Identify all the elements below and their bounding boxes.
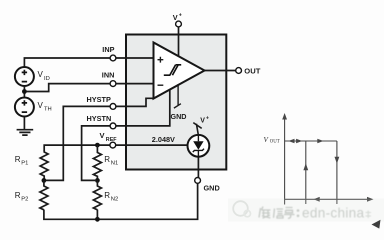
node junction RP1/RP2 — [42, 178, 47, 183]
ground symbol — [17, 130, 34, 135]
hysteresis loop bottom arrow — [314, 197, 320, 202]
label V+ top — [173, 13, 182, 22]
svg-text:R: R — [15, 191, 21, 200]
label RP2 — [15, 191, 29, 203]
svg-text:+: + — [179, 13, 182, 19]
terminal GND bottom — [195, 178, 201, 184]
label OUT — [244, 66, 260, 75]
hysteresis loop top edge — [285, 139, 337, 144]
comparator + input glyph — [158, 57, 164, 63]
svg-text:HYSTP: HYSTP — [87, 95, 111, 104]
terminal INN — [110, 81, 116, 87]
label RN2 — [104, 191, 118, 203]
watermark tint — [228, 199, 384, 222]
label RN1 — [104, 155, 118, 167]
wire HYSTP net — [45, 98, 154, 180]
resistor RP2 — [40, 180, 48, 209]
IC box U1 — [126, 35, 226, 170]
label VOUT graph — [264, 136, 280, 145]
wire VREF net — [44, 145, 188, 151]
resistor RN1 — [93, 145, 101, 180]
svg-text:V: V — [200, 118, 205, 125]
svg-text:ID: ID — [44, 76, 50, 82]
svg-text:V: V — [38, 70, 44, 79]
terminal HYSTN — [110, 123, 116, 129]
comparator GND pin wire — [174, 84, 181, 108]
watermark chinese glyph wei — [259, 207, 271, 219]
watermark chinese glyph xin — [274, 209, 284, 219]
wire between sources — [23, 86, 25, 97]
label VREF — [100, 131, 118, 143]
wire OUT — [205, 70, 236, 72]
label 2.048V — [152, 135, 175, 144]
voltage source VTH — [15, 98, 34, 117]
hysteresis loop right edge (falling) — [335, 141, 340, 204]
hysteresis graph axes — [282, 113, 373, 205]
node junction RN2/ground bus — [95, 217, 100, 222]
svg-text:edn-china: edn-china — [302, 206, 365, 221]
terminal V+ top — [176, 21, 182, 27]
svg-text:GND: GND — [204, 183, 220, 192]
svg-text:REF: REF — [106, 137, 117, 143]
terminal OUT — [236, 68, 242, 74]
watermark logo circle — [233, 201, 250, 217]
svg-text:OUT: OUT — [270, 140, 280, 145]
label V+ at reference — [200, 115, 209, 124]
svg-text:+: + — [206, 115, 209, 121]
svg-text:OUT: OUT — [244, 66, 260, 75]
label HYSTN — [87, 114, 112, 123]
voltage source VID — [15, 67, 34, 86]
svg-text:TH: TH — [44, 107, 52, 113]
svg-text:V: V — [100, 131, 105, 140]
terminal HYSTP — [110, 104, 116, 110]
label GND bottom — [204, 183, 220, 192]
wire reference to GND terminal and ground bus — [44, 157, 199, 220]
terminal INP — [110, 55, 116, 61]
watermark trailing mark — [366, 211, 372, 219]
node junction VREF/RN1 — [95, 143, 100, 148]
wire VTH to ground — [23, 117, 25, 130]
svg-text:N2: N2 — [111, 196, 118, 202]
svg-text:2.048V: 2.048V — [152, 135, 175, 144]
svg-text:HYSTN: HYSTN — [87, 114, 112, 123]
svg-text:P2: P2 — [21, 196, 28, 202]
hysteresis loop left edge (rising) — [303, 141, 308, 204]
resistor RP1 — [40, 151, 48, 181]
svg-text:R: R — [104, 155, 110, 164]
arrow to V+ at reference — [193, 123, 201, 135]
svg-text:N1: N1 — [111, 160, 118, 166]
svg-text:P1: P1 — [21, 160, 28, 166]
terminal VREF — [110, 142, 116, 148]
watermark chinese glyph hao — [284, 208, 295, 219]
wire INP net (VID top to comparator +) — [24, 58, 153, 67]
comparator U1 triangle — [154, 43, 205, 99]
node junction RN1/RN2 — [95, 178, 100, 183]
svg-text:V: V — [173, 13, 178, 22]
wire V+ supply to comparator — [178, 27, 180, 58]
watermark colon — [297, 209, 300, 217]
comparator hysteresis glyph — [164, 65, 181, 75]
svg-text:R: R — [15, 155, 21, 164]
svg-text:GND: GND — [171, 112, 187, 121]
watermark corner triangle — [372, 220, 381, 229]
node junction VID/VTH — [22, 89, 27, 94]
label VID — [38, 70, 50, 82]
comparator - input glyph — [158, 84, 164, 86]
wire HYSTN net — [82, 90, 170, 181]
label RP1 — [15, 155, 29, 167]
svg-text:INP: INP — [102, 45, 114, 54]
label VTH — [38, 101, 52, 113]
wire INN net (VID/VTH junction to comparator -) — [26, 84, 154, 92]
label GND (inside box) — [171, 112, 187, 121]
resistor RN2 — [93, 180, 101, 209]
reference diode D1 2.048V — [188, 135, 210, 157]
label INN — [102, 71, 115, 80]
svg-text:INN: INN — [102, 71, 115, 80]
svg-text:R: R — [104, 191, 110, 200]
watermark text edn-china — [302, 206, 365, 221]
label HYSTP — [87, 95, 111, 104]
svg-text:V: V — [38, 101, 44, 110]
label INP — [102, 45, 114, 54]
